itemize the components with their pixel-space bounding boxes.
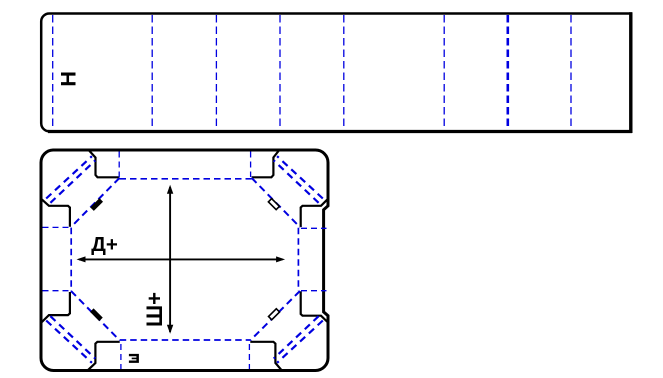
slot top-left (solid) [92,200,101,209]
stub fold bottom-left horizontal [43,290,71,292]
strip bottom cut edge [48,130,632,133]
strip fold line x=216.4 [215,15,217,130]
stub fold top-left horizontal [43,226,71,228]
octagon fold left [70,228,72,291]
strip fold line x=152.2 [151,15,153,130]
double crease top-left line2 [50,160,95,202]
corner diagonal fold top-right [252,178,301,228]
slot bottom-left (solid) [92,310,101,319]
top strip (lid wrap) outline [41,13,631,131]
strip fold line x=280 [279,15,281,130]
slit cut top-left top [89,150,120,177]
corner diagonal fold bottom-right [250,291,300,341]
strip fold line x=343.8 [343,15,345,130]
slit cut top-right top [252,150,280,177]
double crease bottom-right line2 [274,316,319,358]
strip bold fold line x=507.8 [506,15,509,130]
corner diagonal fold bottom-left [71,291,120,341]
double crease bottom-left line2 [50,316,95,358]
stub fold top-left vertical [118,152,120,178]
octagon fold top [120,178,252,180]
double crease bottom-left line1 [46,321,92,363]
svg-text:Ш+: Ш+ [142,292,167,327]
label э [129,354,139,363]
octagon fold bottom [120,339,251,341]
tray blank outline [41,150,328,371]
stub fold bottom-left vertical [120,344,122,369]
double crease bottom-right line1 [277,321,323,363]
stub fold top-right horizontal [301,227,327,229]
strip right cut edge [629,12,632,133]
slit cut top-left left [41,199,70,227]
double crease top-left line1 [46,156,92,198]
slit cut bottom-right bottom [250,342,281,371]
slot bottom-right (hollow) [269,309,280,320]
double crease top-right line2 [274,160,319,202]
svg-text:Н: Н [57,71,81,87]
strip fold line x=444.2 [443,15,445,130]
slit cut bottom-left left [41,292,70,323]
dimension arrow vertical Ш [169,187,171,332]
corner diagonal fold top-left [71,178,120,227]
svg-text:Д+: Д+ [91,233,118,256]
stub fold bottom-right horizontal [301,290,327,292]
stub fold top-right vertical [250,152,252,178]
slit cut bottom-left bottom [88,342,120,371]
octagon fold right [297,228,299,291]
double crease top-right line1 [277,156,323,198]
strip fold line x=571 [570,15,572,130]
slit cut bottom-right right [301,291,328,322]
strip fold line x=52.7 [52,15,54,130]
stub fold bottom-right vertical [248,344,250,369]
dimension arrow horizontal Д [79,258,283,260]
slit cut top-right right [301,199,328,227]
slot top-right (hollow) [268,199,279,210]
